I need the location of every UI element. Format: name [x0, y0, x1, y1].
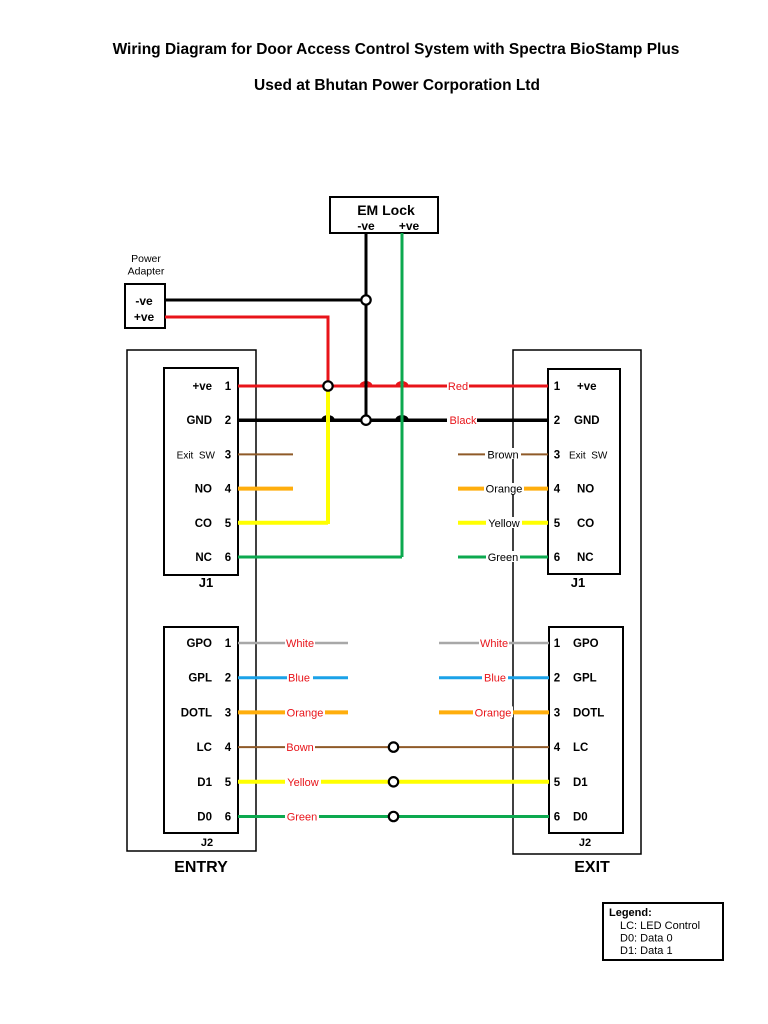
svg-text:DOTL: DOTL: [181, 707, 212, 719]
svg-text:NO: NO: [195, 484, 212, 496]
svg-text:6: 6: [554, 552, 560, 564]
svg-text:6: 6: [554, 812, 560, 824]
svg-text:+ve: +ve: [192, 381, 212, 393]
svg-text:J1: J1: [199, 575, 213, 590]
svg-text:2: 2: [225, 415, 231, 427]
svg-text:5: 5: [225, 777, 232, 789]
svg-text:D1: Data 1: D1: Data 1: [620, 945, 673, 957]
svg-text:Used at Bhutan Power Corporati: Used at Bhutan Power Corporation Ltd: [254, 77, 540, 94]
svg-text:Orange: Orange: [486, 484, 523, 496]
svg-text:Blue: Blue: [484, 673, 506, 685]
svg-text:1: 1: [225, 638, 232, 650]
svg-text:Adapter: Adapter: [128, 266, 165, 278]
svg-text:2: 2: [225, 673, 231, 685]
svg-text:2: 2: [554, 415, 560, 427]
svg-text:J2: J2: [201, 837, 213, 849]
svg-text:Orange: Orange: [475, 707, 512, 719]
svg-text:Yellow: Yellow: [287, 777, 318, 789]
svg-text:White: White: [286, 638, 314, 650]
svg-text:+ve: +ve: [399, 219, 420, 233]
svg-text:J1: J1: [571, 575, 585, 590]
svg-text:Orange: Orange: [287, 707, 324, 719]
svg-text:GND: GND: [186, 415, 212, 427]
svg-text:3: 3: [225, 707, 231, 719]
svg-text:Yellow: Yellow: [488, 518, 519, 530]
svg-text:Power: Power: [131, 253, 161, 265]
svg-text:Legend:: Legend:: [609, 907, 652, 919]
svg-text:D1: D1: [573, 777, 588, 789]
svg-text:NO: NO: [577, 484, 594, 496]
svg-text:GND: GND: [574, 415, 600, 427]
svg-text:1: 1: [554, 381, 561, 393]
svg-text:4: 4: [225, 742, 232, 754]
svg-text:EM Lock: EM Lock: [357, 202, 415, 218]
svg-text:GPL: GPL: [573, 673, 597, 685]
svg-text:3: 3: [225, 449, 231, 461]
svg-text:Exit SW: Exit SW: [177, 450, 216, 461]
svg-text:Bown: Bown: [286, 742, 314, 754]
svg-text:GPL: GPL: [188, 673, 212, 685]
svg-text:Blue: Blue: [288, 673, 310, 685]
svg-text:Green: Green: [287, 812, 318, 824]
svg-text:4: 4: [554, 484, 561, 496]
svg-text:+ve: +ve: [577, 381, 597, 393]
svg-text:5: 5: [554, 777, 561, 789]
svg-text:4: 4: [554, 742, 561, 754]
svg-text:GPO: GPO: [186, 638, 212, 650]
svg-text:5: 5: [554, 518, 561, 530]
svg-text:6: 6: [225, 812, 231, 824]
svg-text:D0: Data 0: D0: Data 0: [620, 933, 673, 945]
svg-text:J2: J2: [579, 837, 591, 849]
svg-text:LC: LED Control: LC: LED Control: [620, 920, 700, 932]
svg-text:LC: LC: [197, 742, 212, 754]
svg-text:NC: NC: [195, 552, 212, 564]
svg-text:Wiring Diagram for Door Access: Wiring Diagram for Door Access Control S…: [113, 41, 680, 58]
svg-text:-ve: -ve: [357, 219, 375, 233]
svg-text:NC: NC: [577, 552, 594, 564]
svg-text:-ve: -ve: [135, 294, 153, 308]
svg-text:1: 1: [554, 638, 561, 650]
svg-text:GPO: GPO: [573, 638, 599, 650]
svg-text:Red: Red: [448, 381, 468, 393]
svg-text:4: 4: [225, 484, 232, 496]
svg-text:DOTL: DOTL: [573, 707, 604, 719]
svg-text:Brown: Brown: [487, 449, 518, 461]
svg-text:3: 3: [554, 449, 560, 461]
svg-text:EXIT: EXIT: [574, 859, 610, 876]
svg-text:1: 1: [225, 381, 232, 393]
svg-text:5: 5: [225, 518, 232, 530]
svg-text:CO: CO: [195, 518, 212, 530]
svg-text:6: 6: [225, 552, 231, 564]
svg-text:Exit SW: Exit SW: [569, 450, 608, 461]
svg-text:3: 3: [554, 707, 560, 719]
svg-text:+ve: +ve: [134, 310, 155, 324]
svg-text:Black: Black: [450, 415, 477, 427]
svg-text:ENTRY: ENTRY: [174, 859, 228, 876]
svg-text:White: White: [480, 638, 508, 650]
svg-text:D1: D1: [197, 777, 212, 789]
svg-text:2: 2: [554, 673, 560, 685]
svg-text:D0: D0: [573, 812, 588, 824]
svg-text:Green: Green: [488, 552, 519, 564]
svg-text:LC: LC: [573, 742, 588, 754]
svg-text:D0: D0: [197, 812, 212, 824]
svg-text:CO: CO: [577, 518, 594, 530]
